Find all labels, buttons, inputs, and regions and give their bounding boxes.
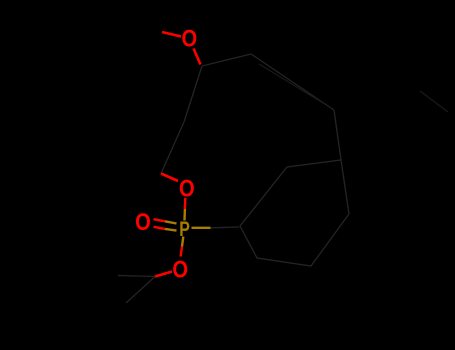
svg-text:O: O — [181, 25, 197, 52]
wire: inner aromatic parallel of F-E (faint gray) — [259, 64, 323, 103]
wire: P-O4 bond red lower half — [181, 247, 182, 257]
wire: P-O4 bond olive upper half — [182, 237, 183, 247]
svg-text:P: P — [179, 218, 190, 242]
node P1: phosphorus — [179, 218, 190, 242]
wire: P-O2 bond lower olive half — [183, 209, 186, 221]
wire: isopropyl arm 2 (faint gray) — [126, 277, 155, 304]
wire: P-O2 bond upper red half — [184, 198, 187, 209]
wire: P-C1 bond (olive) — [192, 227, 211, 229]
wire: gray completion of P-C1 bond — [211, 226, 240, 229]
wire: ring edge A-B (faint gray) — [184, 66, 202, 122]
wire: benzylic bond B-CH2a (faint gray) — [161, 122, 184, 174]
node O4: lower ester oxygen — [172, 256, 188, 283]
wire: O1 to ring carbon A (red) — [194, 49, 201, 65]
wire: ring edge A-F (faint gray) — [202, 54, 251, 66]
wire: lower ring hexagon (faint gray) — [240, 160, 349, 266]
svg-text:O: O — [135, 208, 151, 235]
wire: isopropyl arm 1 (faint gray) — [118, 276, 155, 277]
svg-text:O: O — [172, 256, 188, 283]
wire: far right stub (faint gray) — [420, 91, 448, 112]
wire: methyl C-O bond (red) — [162, 32, 181, 37]
node O2: upper ester oxygen — [179, 175, 195, 202]
wire: O2 to CH2a (red) — [161, 174, 178, 182]
wire: O4 to CHb bond (red) — [155, 272, 172, 277]
wire: long aromatic edge F-E (faint gray) — [251, 54, 334, 110]
node O1: methoxy oxygen — [181, 25, 197, 52]
wire: ring edge E to E2 (faint gray) — [334, 110, 341, 160]
svg-text:O: O — [179, 175, 195, 202]
node O3: phosphoryl oxygen — [135, 208, 151, 235]
wire: P=O double bond upper line (red half + olive half) — [154, 219, 166, 221]
wire: P=O double bond lower line (red half + olive half) — [154, 227, 166, 229]
